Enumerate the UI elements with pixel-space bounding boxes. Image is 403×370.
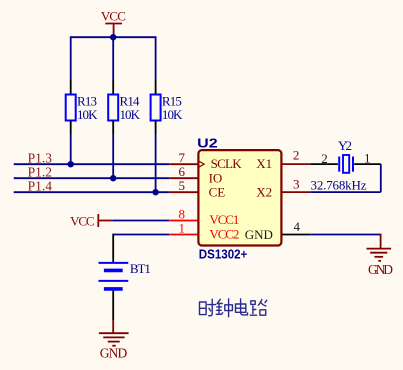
node VCC junction <box>110 34 116 40</box>
hanzi 钟 <box>216 299 232 317</box>
pin R13 top <box>70 80 72 95</box>
pin 1 stub <box>169 234 198 236</box>
svg-text:6: 6 <box>179 164 186 179</box>
svg-text:1: 1 <box>364 150 371 165</box>
svg-text:10K: 10K <box>162 107 183 122</box>
pin 8 stub <box>169 220 198 222</box>
resistor R15 <box>151 95 161 121</box>
pin 3 stub <box>282 191 310 193</box>
wire P1.3 <box>14 163 170 165</box>
node P1.4/R15 junction <box>152 189 158 195</box>
svg-text:10K: 10K <box>77 107 98 122</box>
pin R15 top <box>155 80 157 95</box>
svg-text:2: 2 <box>293 148 300 163</box>
svg-text:32.768kHz: 32.768kHz <box>311 178 367 193</box>
pin 6 stub <box>169 177 198 179</box>
wire pin 1 to battery corner <box>113 234 169 236</box>
pin 5 stub <box>169 191 198 193</box>
pin 7 stub <box>169 163 198 165</box>
svg-text:VCC: VCC <box>101 8 126 23</box>
wire P1.2 <box>14 177 170 179</box>
svg-text:Y2: Y2 <box>338 138 352 153</box>
svg-text:VCC1: VCC1 <box>209 212 239 227</box>
svg-text:1: 1 <box>179 220 186 235</box>
ground GND (right) <box>367 234 392 261</box>
svg-text:X2: X2 <box>256 185 272 200</box>
crystal pin 1 lead <box>354 163 381 165</box>
hanzi 电 <box>236 299 248 315</box>
svg-text:GND: GND <box>368 262 393 277</box>
wire R14 column lower <box>112 135 114 179</box>
wire crystal right down <box>380 164 382 192</box>
wire VCC to pin 8 <box>112 220 169 222</box>
svg-text:BT1: BT1 <box>130 261 151 276</box>
wire top bus <box>71 36 156 38</box>
hanzi 时 <box>200 299 216 316</box>
svg-text:2: 2 <box>321 151 328 166</box>
wire R13 column upper <box>70 36 72 80</box>
svg-text:5: 5 <box>179 178 186 193</box>
pin BT1 bottom <box>112 291 114 320</box>
crystal pin 2 lead <box>310 163 338 165</box>
pin R15 bottom <box>155 121 157 135</box>
svg-text:7: 7 <box>179 150 186 165</box>
svg-text:8: 8 <box>179 206 186 221</box>
node P1.3/R13 junction <box>68 161 74 167</box>
crystal Y2 <box>339 155 353 173</box>
pin R13 bottom <box>70 121 72 135</box>
wire pin 4 to right <box>310 234 380 236</box>
pin R14 top <box>112 80 114 95</box>
svg-text:3: 3 <box>293 176 300 191</box>
wire R15 column lower <box>155 135 157 193</box>
resistor R14 <box>108 95 118 121</box>
svg-text:4: 4 <box>294 219 301 234</box>
pin 4 stub <box>282 234 310 236</box>
svg-text:CE: CE <box>209 185 226 200</box>
svg-text:DS1302+: DS1302+ <box>199 247 248 261</box>
svg-text:VCC2: VCC2 <box>209 226 239 241</box>
svg-text:SCLK: SCLK <box>211 156 243 171</box>
pin 2 stub <box>282 163 310 165</box>
node P1.2/R14 junction <box>110 175 116 181</box>
wire R13 column lower <box>70 135 72 165</box>
ground GND (left) <box>99 320 129 346</box>
svg-text:X1: X1 <box>256 156 272 171</box>
pin BT1 top <box>112 234 114 262</box>
wire R15 column upper <box>155 36 157 80</box>
battery BT1 <box>99 263 129 289</box>
svg-text:U2: U2 <box>197 135 218 150</box>
wire P1.4 <box>14 191 170 193</box>
pin R14 bottom <box>112 121 114 135</box>
svg-text:GND: GND <box>245 227 273 242</box>
IC U2 DS1302 body <box>198 150 281 245</box>
caption 时钟电路 (hand drawn strokes) <box>200 299 267 317</box>
hanzi 路 <box>250 300 266 316</box>
svg-text:VCC: VCC <box>70 213 95 228</box>
wire X2 row <box>310 191 381 193</box>
svg-text:IO: IO <box>209 171 223 186</box>
clock input arrow pin 7 <box>199 161 204 167</box>
wire R14 column upper <box>112 37 114 80</box>
power port VCC (top) <box>105 24 122 38</box>
resistor R13 <box>66 95 76 121</box>
svg-text:GND: GND <box>100 345 128 360</box>
svg-text:10K: 10K <box>120 107 141 122</box>
